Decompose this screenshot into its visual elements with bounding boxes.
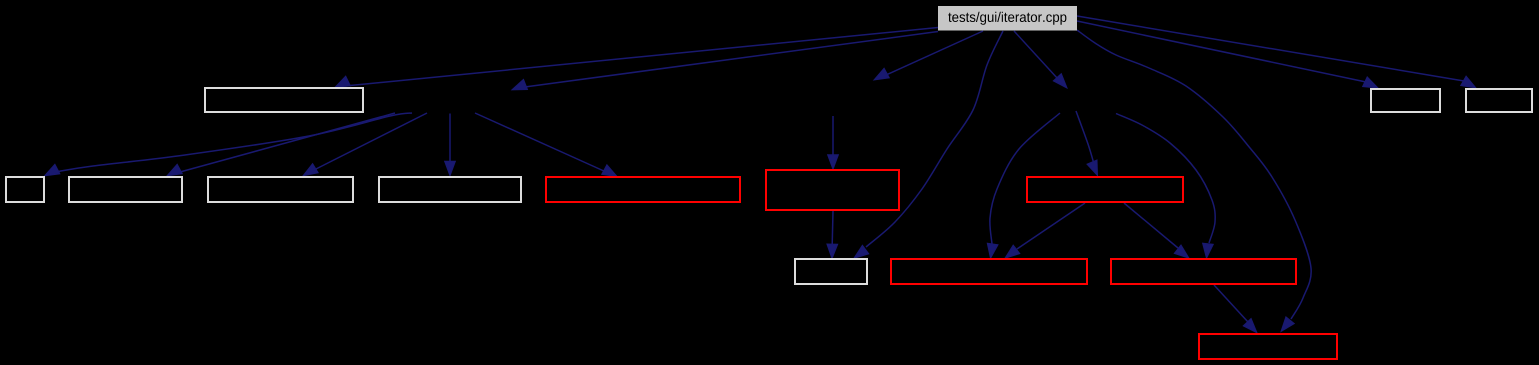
node row4 red box 1 bbox=[891, 259, 1087, 284]
node box5 red row3 bbox=[546, 177, 740, 202]
node box2 white row3 bbox=[69, 177, 182, 202]
wire box7->row4 red box 2 bbox=[1124, 203, 1189, 258]
node white box row2 right A bbox=[1371, 89, 1440, 112]
wire left hub->box3 bbox=[303, 113, 427, 176]
node row4 white box bbox=[795, 259, 867, 284]
wire left hub->box4 bbox=[445, 114, 456, 176]
node row5 red box bbox=[1199, 334, 1337, 359]
wire right hub->row4 red box 1 (curve) bbox=[987, 113, 1060, 258]
node box7 red row3 bbox=[1027, 177, 1183, 202]
node box3 white row3 bbox=[208, 177, 353, 202]
node row4 red box 2 bbox=[1111, 259, 1296, 284]
wire root->left hub (invisible) bbox=[512, 32, 938, 90]
node root tests/gui/iterator.cpp bbox=[938, 6, 1077, 31]
node box6 red row3 tall bbox=[766, 170, 899, 210]
wire left hub->box2 bbox=[167, 113, 395, 176]
wire left hub->box5 red bbox=[475, 113, 617, 177]
node white box row2 right B bbox=[1466, 89, 1532, 112]
wire root->node X (invisible) bbox=[874, 31, 983, 80]
wire box6->row4 white box bbox=[827, 211, 838, 259]
node box4 white row3 bbox=[379, 177, 521, 202]
wire node X->box6 red bbox=[828, 116, 839, 169]
wire root->row5 red box (outer curve) bbox=[1077, 30, 1311, 332]
wire left hub->box1 (curve) bbox=[45, 113, 413, 176]
wire box7->row4 red box 1 bbox=[1005, 203, 1085, 258]
wire root->node2 left white box bbox=[335, 28, 938, 88]
wire root->right white box B bbox=[1077, 16, 1476, 88]
wire row4 red box 2->row5 red box bbox=[1214, 285, 1257, 333]
wire right hub->box7 red bbox=[1076, 111, 1098, 176]
wire right hub->row4 red box 2 (bulge curve) bbox=[1116, 114, 1215, 259]
node 2 white box row2 left bbox=[205, 88, 363, 112]
wire root->right white box A bbox=[1077, 21, 1378, 88]
wire root->row4 white box (curve) bbox=[854, 31, 1003, 258]
node box1 white row3 bbox=[6, 177, 44, 202]
wire root->right hub (invisible) bbox=[1014, 31, 1067, 88]
